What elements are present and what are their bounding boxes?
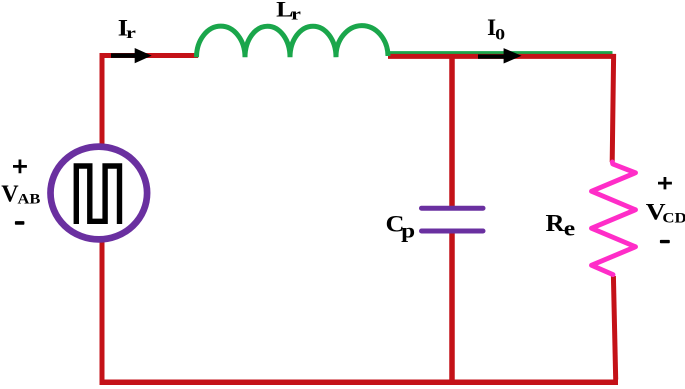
wire: right vertical lower segment xyxy=(613,276,615,380)
svg-text:r: r xyxy=(291,5,301,24)
svg-text:e: e xyxy=(564,217,575,241)
label - (VAB) xyxy=(15,221,25,225)
wire: middle branch lower (capacitor bottom plate to bottom wire) xyxy=(449,233,455,381)
wire: top-right horizontal + right vertical upper segment xyxy=(388,56,614,162)
label + (VCD) xyxy=(658,177,672,189)
inductor Lr coil xyxy=(197,26,389,58)
wire: left vertical lower segment xyxy=(100,242,105,380)
label - (VCD) xyxy=(660,240,670,243)
current arrow Ir xyxy=(111,53,136,58)
svg-text:AB: AB xyxy=(17,191,40,207)
resistor Re zigzag xyxy=(592,162,636,275)
wire: middle branch upper (top wire to capacitor top plate) xyxy=(449,54,455,207)
svg-text:CD: CD xyxy=(662,210,685,226)
current arrow I0 xyxy=(478,54,505,58)
svg-text:p: p xyxy=(401,219,415,243)
svg-text:R: R xyxy=(546,211,566,237)
wire: top-left horizontal + left vertical upper segment xyxy=(102,56,198,146)
square wave symbol inside source xyxy=(76,166,119,224)
capacitor Cp bottom plate xyxy=(422,229,484,234)
voltage source VAB circle xyxy=(51,147,148,240)
svg-text:r: r xyxy=(126,25,136,42)
label + (VAB) xyxy=(13,160,27,174)
svg-text:0: 0 xyxy=(495,25,505,43)
wire: inductor lead green overlay line xyxy=(387,51,613,55)
capacitor Cp top plate xyxy=(422,206,484,211)
wire: bottom horizontal xyxy=(100,380,619,386)
